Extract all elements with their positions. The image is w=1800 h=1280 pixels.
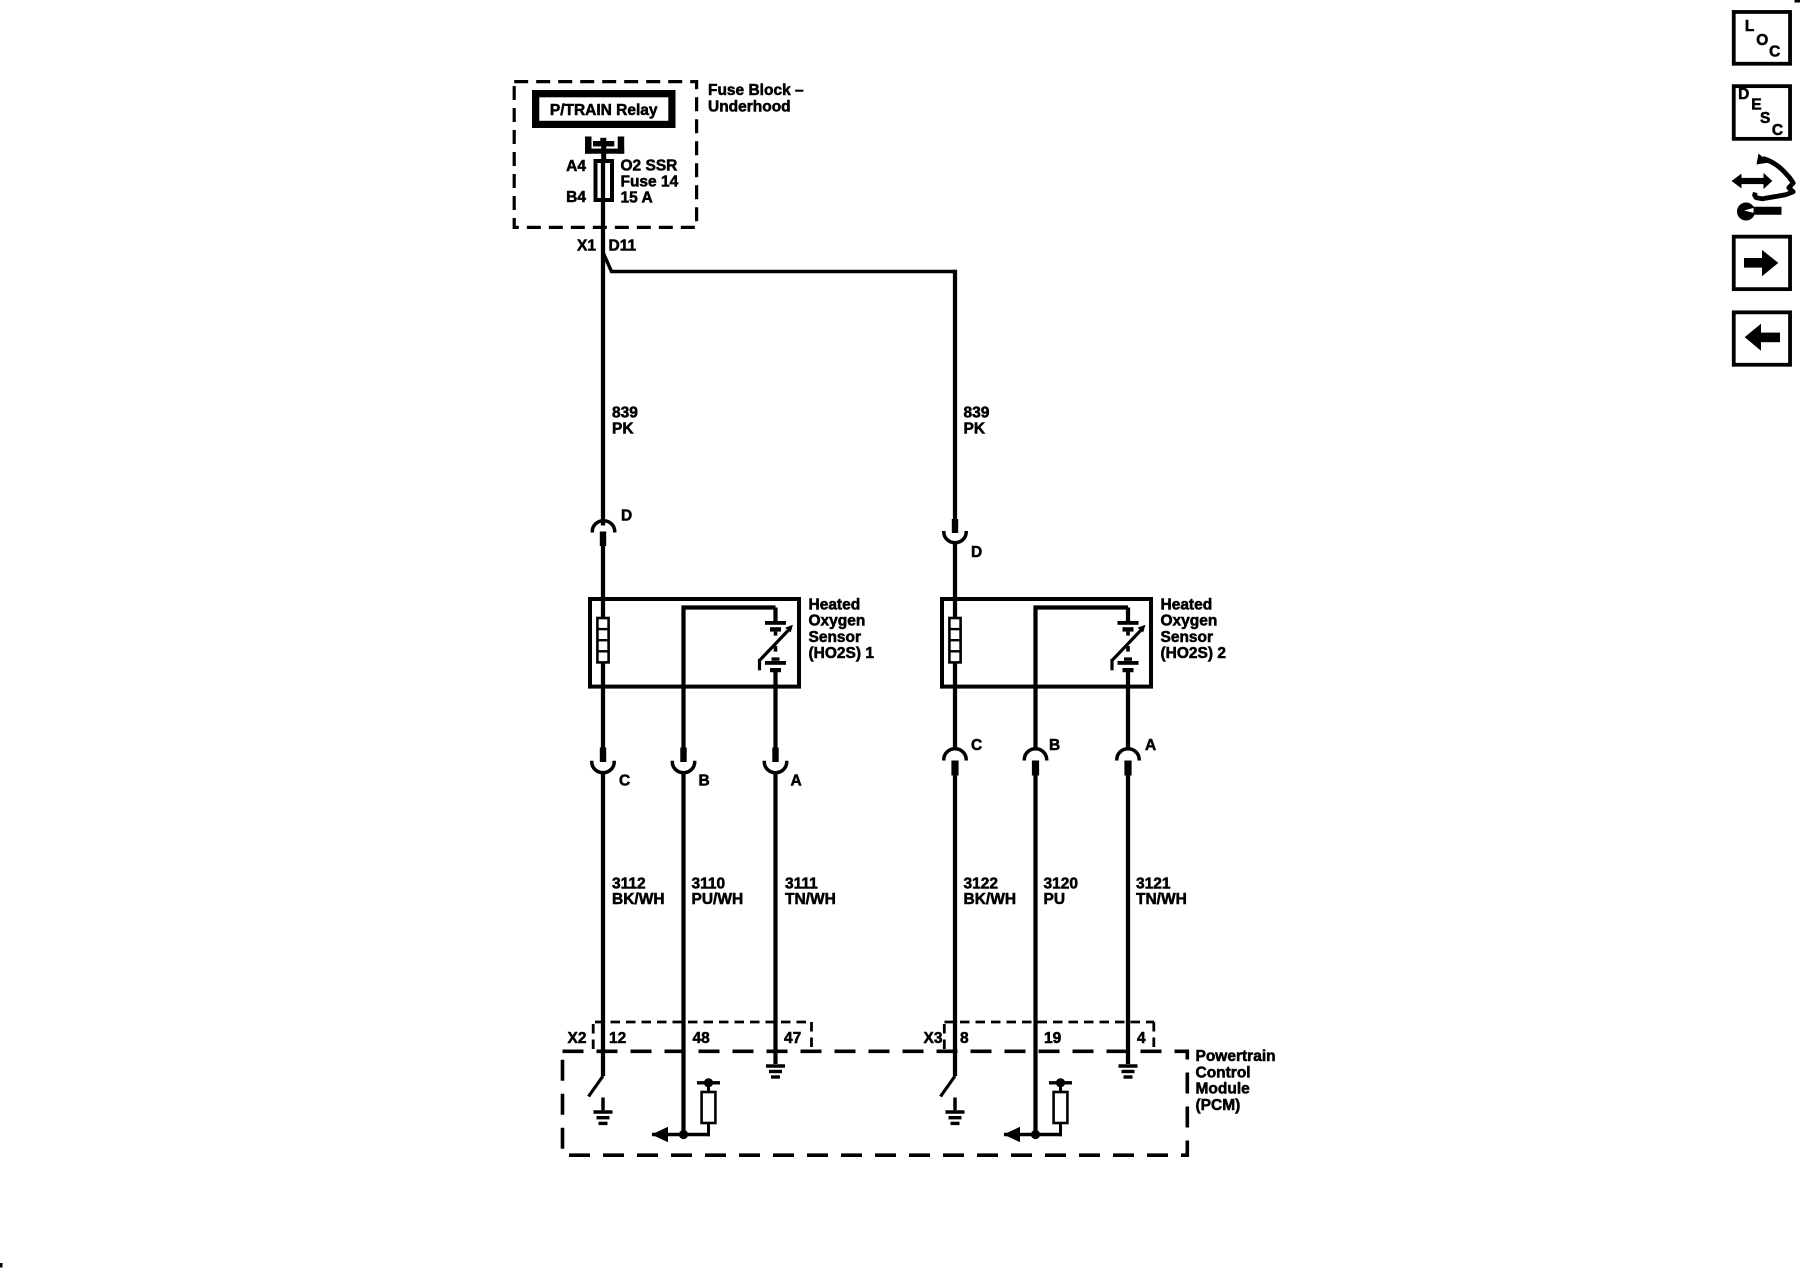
svg-text:B: B xyxy=(1049,737,1060,754)
svg-text:B: B xyxy=(699,773,710,790)
svg-text:Module: Module xyxy=(1196,1081,1251,1098)
svg-text:3111: 3111 xyxy=(785,875,818,892)
svg-text:D: D xyxy=(971,544,982,561)
svg-text:Heated: Heated xyxy=(809,597,861,614)
svg-text:A4: A4 xyxy=(566,158,586,175)
svg-text:Sensor: Sensor xyxy=(1161,629,1214,646)
svg-text:TN/WH: TN/WH xyxy=(785,891,836,908)
svg-text:B4: B4 xyxy=(566,189,586,206)
svg-text:A: A xyxy=(791,773,802,790)
svg-text:3112: 3112 xyxy=(612,875,646,892)
svg-text:Fuse 14: Fuse 14 xyxy=(621,174,679,191)
svg-text:TN/WH: TN/WH xyxy=(1136,891,1187,908)
svg-text:Heated: Heated xyxy=(1161,597,1213,614)
svg-text:Fuse Block –: Fuse Block – xyxy=(708,82,804,99)
svg-text:Underhood: Underhood xyxy=(708,99,791,116)
svg-text:O2 SSR: O2 SSR xyxy=(621,158,678,175)
svg-text:L: L xyxy=(1745,18,1754,35)
svg-text:15 A: 15 A xyxy=(621,190,653,207)
svg-text:C: C xyxy=(619,773,630,790)
svg-text:(HO2S) 1: (HO2S) 1 xyxy=(809,645,875,662)
svg-text:D: D xyxy=(621,508,632,525)
svg-text:A: A xyxy=(1145,737,1156,754)
svg-text:X1: X1 xyxy=(577,238,596,255)
svg-text:Oxygen: Oxygen xyxy=(809,613,866,630)
svg-text:P/TRAIN Relay: P/TRAIN Relay xyxy=(550,102,658,119)
svg-text:C: C xyxy=(1769,44,1780,61)
svg-text:BK/WH: BK/WH xyxy=(612,891,665,908)
svg-text:839: 839 xyxy=(964,405,990,422)
svg-text:Control: Control xyxy=(1196,1064,1251,1081)
svg-text:BK/WH: BK/WH xyxy=(964,891,1017,908)
svg-text:(PCM): (PCM) xyxy=(1196,1097,1241,1114)
svg-text:(HO2S) 2: (HO2S) 2 xyxy=(1161,645,1226,662)
svg-text:X2: X2 xyxy=(568,1030,587,1047)
svg-text:X3: X3 xyxy=(924,1030,943,1047)
svg-text:C: C xyxy=(1772,122,1783,139)
svg-text:47: 47 xyxy=(784,1030,801,1047)
svg-text:D11: D11 xyxy=(609,238,637,255)
svg-text:Sensor: Sensor xyxy=(809,629,862,646)
svg-text:D: D xyxy=(1738,86,1749,103)
svg-text:Oxygen: Oxygen xyxy=(1161,613,1218,630)
svg-text:4: 4 xyxy=(1137,1030,1146,1047)
svg-text:839: 839 xyxy=(612,405,638,422)
svg-text:O: O xyxy=(1756,32,1768,49)
svg-text:PK: PK xyxy=(964,421,986,438)
svg-text:C: C xyxy=(971,737,982,754)
svg-text:PU/WH: PU/WH xyxy=(692,891,744,908)
svg-text:12: 12 xyxy=(609,1030,626,1047)
svg-text:3120: 3120 xyxy=(1044,875,1078,892)
svg-text:PU: PU xyxy=(1044,891,1066,908)
svg-text:19: 19 xyxy=(1044,1030,1062,1047)
svg-text:3121: 3121 xyxy=(1136,875,1171,892)
svg-text:48: 48 xyxy=(693,1030,711,1047)
svg-text:PK: PK xyxy=(612,421,634,438)
svg-text:Powertrain: Powertrain xyxy=(1196,1048,1276,1065)
svg-text:8: 8 xyxy=(960,1030,969,1047)
svg-text:3110: 3110 xyxy=(692,875,726,892)
svg-text:S: S xyxy=(1760,110,1770,127)
svg-text:3122: 3122 xyxy=(964,875,998,892)
